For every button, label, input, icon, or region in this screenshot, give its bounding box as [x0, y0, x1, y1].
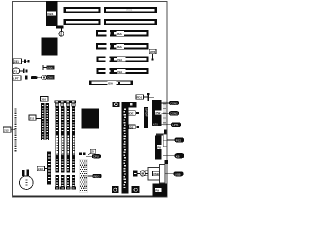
parallel port header J3 [13, 75, 55, 81]
SIMM pin stripes [56, 108, 74, 130]
svg-text:P9: P9 [155, 189, 159, 193]
svg-text:KB: KB [176, 154, 180, 158]
svg-text:ISA: ISA [117, 45, 123, 49]
memory rotated label [144, 107, 149, 128]
svg-text:PW: PW [156, 111, 161, 115]
svg-text:J5: J5 [91, 150, 95, 154]
serial port header J2 [13, 68, 28, 74]
battery BT1 [20, 170, 34, 190]
svg-text:JP2: JP2 [150, 50, 156, 54]
lower pin header strip [47, 152, 51, 185]
ISA slot 5 short [89, 80, 133, 85]
right label PWR [167, 137, 184, 142]
svg-text:J13: J13 [38, 167, 43, 171]
pin strip above power connector 2 [156, 133, 165, 135]
keyboard connector CN1 [46, 1, 58, 26]
svg-text:CN5: CN5 [47, 66, 53, 70]
regulator label pill [88, 174, 102, 178]
power connector block P1 [152, 100, 162, 126]
IDE label box [128, 111, 139, 116]
SIMM lower stripes [55, 159, 75, 186]
mouse header CN2 [56, 25, 64, 36]
svg-text:COM1: COM1 [170, 101, 178, 105]
jumper JP2 with label [149, 49, 156, 60]
svg-text:J10: J10 [41, 98, 46, 102]
right label KB [163, 153, 184, 158]
power block P3 bottom [153, 184, 168, 197]
svg-text:COM2: COM2 [170, 112, 178, 116]
PS/2 connector outline [145, 164, 165, 183]
CPU support chip U2 [82, 109, 100, 129]
AGP bottom right box [132, 186, 140, 193]
PCI slot label text [127, 8, 133, 12]
svg-text:P8: P8 [157, 146, 161, 150]
floppy connector label CN7 [136, 93, 154, 101]
SIMM sockets bank [55, 101, 77, 107]
serial port header J1 [13, 59, 29, 64]
board outline [13, 1, 167, 196]
right bracket outline boxes [163, 134, 166, 147]
svg-text:LPT1: LPT1 [172, 123, 179, 127]
dotted strip label [3, 127, 15, 133]
voltage regulator dot grid [79, 160, 88, 193]
right label LPT1 [162, 123, 181, 128]
IDE connector header label right [128, 102, 136, 108]
CPU label pill [86, 154, 101, 158]
fan connector [133, 171, 148, 177]
svg-text:J12: J12 [4, 129, 9, 133]
svg-text:USB: USB [175, 172, 181, 176]
chipset chip U1 [42, 38, 58, 56]
IDE label box 2 [129, 125, 139, 129]
dotted header strip left edge [15, 108, 17, 151]
svg-text:KB1: KB1 [47, 12, 53, 16]
svg-text:IDE: IDE [129, 112, 134, 116]
lower strip label [37, 166, 47, 171]
ISA slot 2 [96, 43, 149, 49]
ISA slot 3 [96, 56, 148, 62]
power connector block P2 [155, 136, 163, 160]
svg-text:USB: USB [153, 172, 159, 176]
svg-text:CN6: CN6 [47, 76, 53, 80]
right edge black mark [165, 160, 169, 164]
svg-text:CPU: CPU [93, 155, 99, 159]
SIMM socket 3 [66, 106, 71, 189]
SIMM socket 4 [72, 106, 76, 189]
AGP slot vertical [122, 102, 129, 194]
svg-text:J31: J31 [14, 60, 20, 64]
svg-text:REG: REG [94, 174, 100, 178]
right edge pins [163, 101, 167, 126]
front panel header top label [41, 97, 49, 102]
svg-text:FD1: FD1 [137, 96, 143, 100]
svg-text:ATX: ATX [153, 122, 158, 126]
right label USB [165, 171, 184, 176]
right edge bracket mark [164, 129, 167, 134]
front panel label left [29, 115, 41, 120]
svg-text:J11: J11 [30, 116, 35, 120]
svg-text:P1: P1 [13, 69, 17, 73]
SIMM middle ladder light section [56, 135, 75, 155]
svg-text:PCI1: PCI1 [127, 8, 133, 12]
svg-text:PS2: PS2 [176, 138, 182, 142]
SIMM socket 2 [60, 106, 65, 189]
IDE connector header label left [112, 102, 119, 107]
svg-text:S/PDIF: S/PDIF [144, 108, 148, 117]
SIMM socket 1 [55, 106, 59, 189]
front panel header strips [41, 103, 49, 140]
svg-text:ISA: ISA [117, 32, 123, 36]
PCI slot 1 [64, 7, 158, 13]
CPU jumper label [88, 149, 96, 155]
PCI slot 2 [64, 19, 158, 25]
jumper label JP1 [42, 65, 54, 70]
AGP bottom left box [112, 186, 119, 193]
CPU jumper dashes [79, 152, 85, 155]
ISA slot 4 [96, 68, 148, 74]
ISA slot 1 [96, 30, 149, 36]
right label COM1 [162, 101, 179, 105]
svg-text:ID2: ID2 [129, 125, 134, 129]
svg-text:LPT: LPT [13, 77, 19, 81]
right label COM2 [162, 111, 179, 115]
